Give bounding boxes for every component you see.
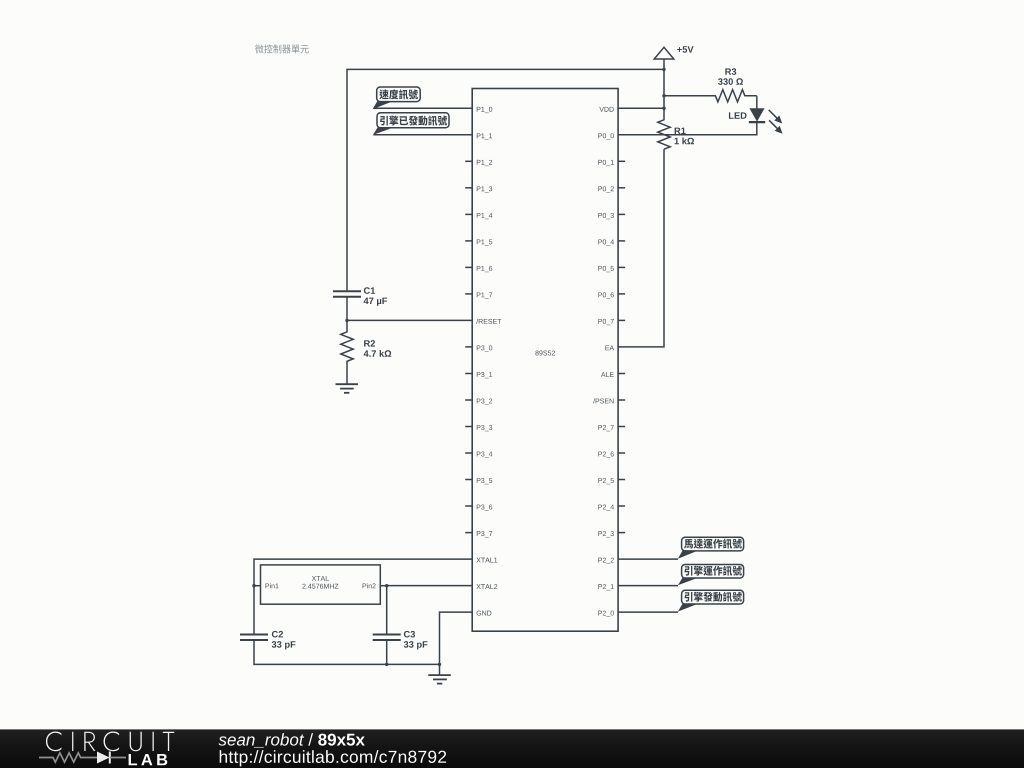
CircuitLab logo schematic line (resistor and diode) [39, 752, 126, 764]
wire callout to P1_1 pin [373, 134, 472, 136]
wire VDD pin to +5V rail [618, 107, 664, 109]
pin P2_3 (right) [598, 531, 625, 537]
junction bottom rail / GND wire [438, 663, 441, 666]
pin XTAL2 (left) [476, 584, 497, 589]
pin P0_3 (right) [598, 213, 625, 219]
pin ALE (right) [601, 372, 625, 377]
junction VDD branch [662, 107, 665, 110]
wire C3 bottom to rail [386, 640, 388, 664]
wire LED cathode to P0_0 pin [618, 122, 757, 135]
pin P2_2 (right) [598, 558, 613, 564]
pin XTAL1 (left) [476, 558, 497, 563]
pin P0_4 (right) [598, 239, 625, 245]
pin P2_7 (right) [598, 425, 625, 431]
crystal X1 XTAL 2.4576MHZ [254, 565, 387, 604]
wire P2_2 pin to callout [618, 558, 678, 560]
footer url http://circuitlab.com/c7n8792 [220, 750, 446, 766]
junction C1 / R2 / RESET node [345, 319, 348, 322]
pin P2_6 (right) [598, 452, 625, 458]
pin P0_2 (right) [598, 186, 625, 192]
pin P1_3 (left) [465, 186, 492, 192]
wire +5V vertical rail to VDD junction [663, 59, 665, 108]
callout label 馬達運作訊號 (motor running signal) [678, 537, 744, 559]
pin P1_6 (left) [465, 266, 492, 272]
pin P3_4 (left) [465, 452, 492, 458]
CircuitLab footer bar [0, 729, 1024, 768]
capacitor C3 33 pF [373, 631, 428, 650]
pin P1_1 (left) [477, 133, 492, 139]
wire junction to /RESET pin [347, 319, 472, 321]
callout label 引擎運作訊號 (engine running signal) [678, 565, 744, 586]
CircuitLab logo wordmark LAB [129, 754, 168, 765]
pin P3_7 (left) [465, 531, 492, 537]
pin P1_4 (left) [465, 213, 492, 219]
resistor R2 4.7 kOhm (vertical) [341, 320, 391, 384]
pin P3_0 (left) [465, 345, 492, 351]
pin P3_1 (left) [465, 372, 492, 378]
callout label 速度訊號 (speed signal) [373, 87, 421, 109]
wire crystal Pin2 to XTAL2 pin [387, 585, 473, 587]
wire top rail from C1 branch to +5V rail [347, 69, 664, 291]
pin EA (right) [605, 345, 614, 350]
IC U1 89S52 body [472, 89, 618, 632]
wire P2_0 pin to callout [618, 611, 678, 613]
wire C2 bottom rail to ground branch [254, 640, 440, 664]
callout label 引擎發動訊號 (engine start signal) [678, 590, 744, 611]
junction crystal Pin2 / XTAL2 / C3 node [385, 584, 388, 587]
resistor R3 330 Ohm (horizontal) [664, 68, 757, 102]
pin P2_5 (right) [598, 478, 625, 484]
wire callout to P1_0 pin [373, 107, 472, 109]
junction C3 / bottom rail [385, 663, 388, 666]
pin P1_5 (left) [465, 239, 492, 245]
pin GND (left) [477, 611, 492, 616]
pin P0_5 (right) [598, 266, 625, 272]
pin P1_2 (left) [465, 160, 492, 166]
wire Pin2 node down to C3 [386, 586, 388, 635]
pin P3_3 (left) [465, 425, 492, 431]
power supply +5V symbol [654, 46, 693, 59]
pin P3_2 (left) [465, 399, 492, 405]
pin P1_7 (left) [465, 292, 492, 298]
junction R3 branch [662, 94, 665, 97]
pin VDD (right) [599, 107, 613, 112]
wire C1 bottom to RESET junction [346, 297, 348, 321]
wire P2_1 pin to callout [618, 585, 678, 587]
footer username sean_robot / 89x5x [219, 733, 365, 747]
wire XTAL1 pin to crystal Pin1 branch and C2 top [254, 559, 472, 634]
pin P3_5 (left) [465, 478, 492, 484]
ground symbol under GND pin [428, 675, 451, 684]
capacitor C2 33 pF [240, 631, 295, 650]
resistor R1 1 kOhm (vertical, EA pull-up) [658, 108, 694, 149]
CircuitLab logo wordmark CIRCUIT [46, 732, 174, 752]
pin P0_7 (right) [598, 319, 625, 325]
pin P2_0 (right) [598, 611, 613, 617]
callout label 引擎已發動訊號 (engine started signal) [373, 113, 449, 135]
text label 微控制器單元 (microcontroller unit title) [255, 44, 309, 53]
pin P1_0 (left) [477, 107, 492, 113]
pin P0_6 (right) [598, 292, 625, 298]
wire R1 bottom to EA pin [618, 149, 664, 347]
pin P0_0 (right) [598, 133, 613, 139]
LED D1 with light arrows [729, 109, 783, 134]
ground symbol under R2 [336, 384, 359, 393]
pin /RESET (left) [476, 319, 501, 324]
pin P2_1 (right) [598, 584, 613, 590]
pin /PSEN (right) [593, 398, 625, 403]
junction crystal Pin1 [252, 584, 255, 587]
wire R3 output down to LED anode [756, 96, 758, 109]
pin P2_4 (right) [598, 505, 625, 511]
pin P3_6 (left) [465, 505, 492, 511]
capacitor C1 47 uF [333, 287, 387, 306]
wire GND pin down to ground [440, 612, 473, 675]
pin P0_1 (right) [598, 160, 625, 166]
junction +5V rail / top rail [662, 68, 665, 71]
